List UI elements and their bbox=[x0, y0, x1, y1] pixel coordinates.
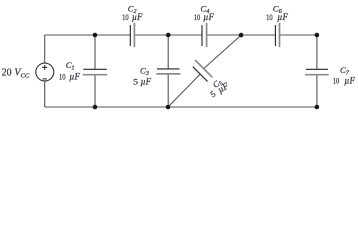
node bottom C3 diagonal bbox=[166, 105, 171, 110]
capacitor C3 bbox=[156, 69, 180, 74]
svg-text:10µF: 10µF bbox=[333, 75, 356, 85]
node top diagonal bbox=[239, 33, 244, 38]
svg-text:10µF: 10µF bbox=[59, 71, 80, 81]
capacitor C4 bbox=[202, 23, 207, 48]
svg-text:20 VCC: 20 VCC bbox=[2, 68, 30, 80]
svg-text:C1: C1 bbox=[66, 60, 75, 72]
svg-text:10µF: 10µF bbox=[266, 12, 288, 22]
node top right bbox=[315, 33, 320, 38]
node top C1 bbox=[93, 33, 98, 38]
capacitor C6 bbox=[275, 23, 279, 48]
node dots bbox=[93, 33, 320, 110]
wire left rail source leads bbox=[44, 35, 46, 107]
wire C7 branch bbox=[316, 35, 318, 107]
wire C3 branch bbox=[167, 35, 169, 107]
svg-text:C3: C3 bbox=[140, 65, 149, 77]
node bottom right bbox=[315, 105, 320, 110]
voltage source 20 Vcc bbox=[36, 63, 54, 81]
svg-text:10µF: 10µF bbox=[122, 12, 143, 22]
svg-text:10µF: 10µF bbox=[194, 12, 215, 22]
capacitor C7 bbox=[305, 69, 329, 74]
capacitor C1 bbox=[83, 69, 108, 74]
wire top rail bbox=[45, 34, 317, 36]
capacitor C5 diagonal bbox=[193, 60, 213, 82]
node bottom C1 bbox=[93, 105, 98, 110]
wire diagonal C5 branch bbox=[168, 35, 241, 107]
node top C3 bbox=[166, 33, 171, 38]
capacitor C2 bbox=[130, 23, 134, 48]
label C5 rotated bbox=[208, 76, 230, 99]
svg-text:5µF: 5µF bbox=[133, 76, 151, 86]
wire C1 branch bbox=[94, 35, 96, 107]
wire bottom rail bbox=[45, 106, 317, 108]
